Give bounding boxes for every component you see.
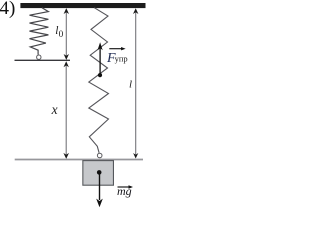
svg-text:4): 4) xyxy=(0,0,15,19)
dimension l0 line xyxy=(65,10,67,58)
svg-text:mg: mg xyxy=(117,184,132,198)
svg-text:x: x xyxy=(51,102,58,117)
spring (left, unstretched l0) xyxy=(30,8,49,55)
dimension x line xyxy=(65,63,67,156)
mass block xyxy=(83,161,114,186)
point on spring (F application) xyxy=(98,73,102,77)
dimension l line xyxy=(135,10,137,156)
svg-text:l: l xyxy=(129,79,132,91)
svg-text:упр: упр xyxy=(115,53,128,63)
floor / reference line (stretched level) xyxy=(15,159,143,161)
vector bar over mg xyxy=(118,186,131,188)
center of mass dot xyxy=(97,170,102,175)
hook ring (left spring) xyxy=(37,55,41,59)
spring (right, stretched) xyxy=(89,8,109,153)
reference line (natural length level) xyxy=(15,59,71,61)
ceiling bar xyxy=(20,3,145,8)
force arrow F up xyxy=(99,47,101,76)
hook ring (right spring) xyxy=(97,153,102,158)
svg-text:0: 0 xyxy=(59,30,64,40)
gravity arrow mg xyxy=(99,172,101,200)
vector bar over F xyxy=(109,48,123,50)
